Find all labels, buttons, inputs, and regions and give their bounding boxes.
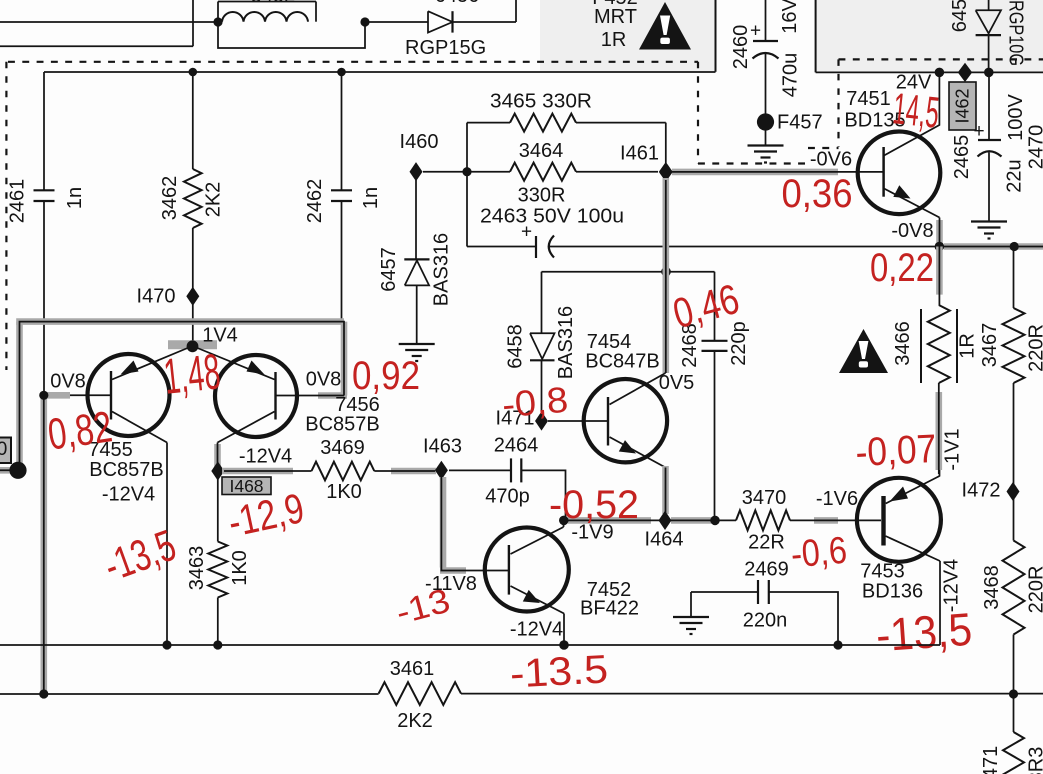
transistor Q 7453 BD136 xyxy=(857,478,941,562)
svg-text:-0V8: -0V8 xyxy=(891,220,933,242)
svg-text:5452: 5452 xyxy=(251,0,296,7)
gray -0V8 rail xyxy=(944,243,1043,250)
dashed border right vertical xyxy=(837,59,839,147)
transistor Q 7454 BC847B xyxy=(584,379,667,462)
wire -0V8 rail xyxy=(549,246,1043,248)
svg-text:I462: I462 xyxy=(953,88,973,123)
wire 3467 to I472 xyxy=(1013,383,1015,484)
junction dot loop/collector xyxy=(661,267,671,277)
module area top right (light fill) xyxy=(816,0,1043,72)
module area top (light fill) xyxy=(540,0,716,72)
svg-text:0: 0 xyxy=(0,439,7,460)
wire 7453 emitter top xyxy=(939,470,941,477)
svg-text:0V8: 0V8 xyxy=(50,371,86,393)
junction dot rail/7451 collector xyxy=(935,68,945,78)
gray 7451 emitter xyxy=(936,220,943,247)
svg-text:2K2: 2K2 xyxy=(203,182,225,218)
junction dot rail/3462 xyxy=(189,68,198,77)
gray bus I461 to 7451 xyxy=(672,169,838,176)
gray 3469 right xyxy=(391,468,436,475)
svg-text:330R: 330R xyxy=(518,185,566,207)
wire rail -13V5 upper xyxy=(0,644,940,646)
svg-text:14,5: 14,5 xyxy=(891,84,942,138)
transistor Q 7451 BD135 xyxy=(858,132,941,215)
svg-text:BAS316: BAS316 xyxy=(431,233,453,306)
junction dot loop left xyxy=(462,167,471,176)
node I463 diamond xyxy=(435,461,448,480)
wire 3466 bottom xyxy=(938,383,940,474)
resistor 3471 (cut) xyxy=(1003,732,1024,774)
junction dot right of bypass xyxy=(360,17,369,26)
wire I472 to 3468 xyxy=(1013,499,1015,541)
ground 6457 xyxy=(399,343,435,345)
wire 7455 collector xyxy=(166,443,168,646)
wire 3464 to I461 xyxy=(576,171,658,173)
wire I471 to base xyxy=(548,420,608,422)
svg-text:F457: F457 xyxy=(777,112,823,134)
junction dot rail/6455 xyxy=(984,68,994,78)
svg-text:3R3: 3R3 xyxy=(1026,747,1043,774)
gray 3466 top xyxy=(936,247,943,295)
svg-text:I472: I472 xyxy=(962,480,1001,502)
wire 2460 bottom xyxy=(765,54,767,123)
svg-text:2469: 2469 xyxy=(744,559,789,581)
capacitor 2469 xyxy=(757,580,759,604)
svg-text:-0V6: -0V6 xyxy=(810,149,852,171)
gray stub 0V8 left xyxy=(45,392,70,399)
wire 3470 to 7453 xyxy=(790,519,881,521)
svg-text:0,22: 0,22 xyxy=(870,246,934,290)
svg-text:22R: 22R xyxy=(748,532,785,554)
svg-text:BF422: BF422 xyxy=(580,598,639,620)
module box right left edge xyxy=(815,0,817,72)
wire inductor bypass xyxy=(218,22,365,48)
junction dot left of inductor xyxy=(213,17,222,26)
bus stub 7456 base gray xyxy=(318,392,347,399)
capacitor 2464 xyxy=(510,458,512,482)
dashed border top right xyxy=(839,58,1043,60)
ground 2465 xyxy=(971,220,1007,222)
gray stub 7456 collector xyxy=(214,444,221,471)
wire I463 to 2464 xyxy=(449,469,511,471)
bus wire black over xyxy=(0,322,344,471)
svg-text:+: + xyxy=(973,121,984,142)
resistor 3466 1R xyxy=(928,305,950,383)
wire 3468 down xyxy=(1013,635,1015,733)
wire top horizontal upper xyxy=(0,21,218,23)
svg-text:3471: 3471 xyxy=(980,746,1002,774)
svg-text:1R: 1R xyxy=(957,333,979,359)
svg-text:0,82: 0,82 xyxy=(45,402,115,459)
wire 2460 top xyxy=(765,0,767,41)
svg-text:2465: 2465 xyxy=(951,135,973,180)
svg-text:2464: 2464 xyxy=(494,435,539,457)
wire I468 down xyxy=(217,478,219,542)
junction dot 3468/bottom rail xyxy=(1009,689,1018,698)
capacitor 2465 xyxy=(978,139,1001,141)
wire I470 to 1V4 xyxy=(192,303,194,346)
svg-text:0V5: 0V5 xyxy=(659,372,695,394)
svg-text:2470: 2470 xyxy=(1026,125,1043,170)
svg-text:3464: 3464 xyxy=(519,140,564,162)
wire 3469 left xyxy=(224,470,312,472)
bus horizontal gray xyxy=(16,318,344,325)
wire rail bottom right xyxy=(461,693,1043,695)
diode 6456 RGP15G xyxy=(428,11,453,32)
svg-text:+: + xyxy=(750,21,761,42)
node I471 diamond xyxy=(535,411,548,430)
capacitor 2461 xyxy=(34,189,55,191)
wire 7453 collector xyxy=(939,561,941,645)
wire 24V rail right xyxy=(816,71,1043,73)
svg-text:+: + xyxy=(521,222,532,243)
node I462 label box xyxy=(949,82,976,130)
svg-text:-0,6: -0,6 xyxy=(789,530,848,577)
capacitor 2462 xyxy=(331,189,352,191)
junction dot 7452 emi/rail xyxy=(559,640,569,650)
wire 2461 branch xyxy=(43,72,45,190)
diode 6455 xyxy=(976,10,1001,33)
inductor 5452 shield box xyxy=(218,1,316,3)
resistor 3465 xyxy=(510,114,576,132)
wire loop left xyxy=(466,123,468,247)
node I464 diamond xyxy=(659,511,672,530)
capacitor 2468 xyxy=(702,340,728,342)
wire diode feed xyxy=(365,21,428,23)
wire 3463 down xyxy=(217,598,219,646)
junction dot 7455 base xyxy=(39,391,48,400)
wire 2465 top xyxy=(988,72,990,140)
junction dot rail bottom left xyxy=(39,689,48,698)
resistor 3467 xyxy=(1003,308,1025,383)
svg-text:3468: 3468 xyxy=(981,565,1003,610)
wire I463 to 7452 base xyxy=(441,477,509,571)
svg-text:220n: 220n xyxy=(743,610,788,632)
resistor 3469 xyxy=(312,462,375,481)
junction dot bus/2468 xyxy=(710,516,720,526)
svg-text:-12V4: -12V4 xyxy=(102,484,155,506)
svg-text:3465 330R: 3465 330R xyxy=(490,91,592,113)
resistor 3463 xyxy=(208,542,227,598)
resistor 3461 xyxy=(379,682,461,705)
svg-text:7451: 7451 xyxy=(846,88,891,110)
svg-text:0,36: 0,36 xyxy=(782,172,853,216)
wire 7456 base xyxy=(276,395,345,397)
svg-text:470u: 470u xyxy=(780,53,802,98)
module box F452 right edge xyxy=(715,0,717,72)
svg-text:1,48: 1,48 xyxy=(161,343,223,405)
wire I461 down to 7454 xyxy=(665,180,667,373)
node I462 diamond xyxy=(958,63,972,82)
wire 6455 bottom xyxy=(988,35,990,72)
warning triangle mid xyxy=(839,329,888,373)
diode 6458 BAS316 xyxy=(530,333,555,359)
resistor 3462 xyxy=(184,169,202,228)
capacitor 2463 xyxy=(535,236,537,258)
svg-text:MRT: MRT xyxy=(594,6,637,28)
wire 2464 to bus xyxy=(521,470,565,517)
svg-text:2461: 2461 xyxy=(7,179,29,224)
wire diode to top edge xyxy=(453,21,517,23)
gray 3466 bottom xyxy=(935,392,942,470)
junction dot 1V4 xyxy=(187,340,199,352)
wire 7454 emitter xyxy=(665,468,667,514)
svg-text:220R: 220R xyxy=(1026,566,1043,614)
svg-text:I464: I464 xyxy=(645,529,684,551)
svg-text:BC857B: BC857B xyxy=(89,459,164,481)
junction dot 7455 col/rail xyxy=(162,640,171,649)
capacitor 2468 branch xyxy=(714,272,716,341)
bus 0V8 left exit gray xyxy=(0,467,20,474)
dashed border mid horizontal xyxy=(698,162,808,164)
wire 3469 right xyxy=(374,470,435,472)
resistor 3470 xyxy=(736,510,790,530)
capacitor 2460 xyxy=(753,40,778,42)
wire collector loop top xyxy=(542,271,715,273)
svg-text:3467: 3467 xyxy=(979,323,1001,368)
wire I461 riser xyxy=(665,123,667,163)
wire 2463 left xyxy=(467,246,536,248)
svg-text:I470: I470 xyxy=(137,286,176,308)
svg-text:1K0: 1K0 xyxy=(229,550,251,586)
wire base column down xyxy=(43,395,45,694)
svg-text:2460: 2460 xyxy=(730,25,752,70)
wire 7452 emitter xyxy=(563,614,565,646)
junction dot 2469/rail xyxy=(833,640,842,649)
node I468 diamond xyxy=(211,461,224,480)
resistor 3464 xyxy=(510,163,576,181)
svg-text:BD136: BD136 xyxy=(862,581,923,603)
gray bus I464 right xyxy=(671,517,711,524)
svg-text:I461: I461 xyxy=(620,143,659,165)
svg-text:-12V4: -12V4 xyxy=(239,446,292,468)
wire loop top right xyxy=(576,122,666,124)
svg-text:3462: 3462 xyxy=(159,176,181,221)
wire 2469 left xyxy=(691,591,758,593)
wire rail bottom left xyxy=(0,693,379,695)
svg-text:3469: 3469 xyxy=(320,437,365,459)
junction dot -0V8/3467 xyxy=(1010,242,1019,251)
svg-text:2463 50V 100u: 2463 50V 100u xyxy=(480,206,624,228)
svg-text:16V: 16V xyxy=(779,0,801,34)
svg-text:-0,07: -0,07 xyxy=(854,427,937,475)
wire bus I464 xyxy=(564,519,736,521)
wire 7455 base xyxy=(44,394,111,396)
wire 6457 down xyxy=(416,285,418,344)
junction dot emitter/-0V8 xyxy=(935,242,945,252)
svg-text:2462: 2462 xyxy=(304,179,326,224)
svg-text:-0,8: -0,8 xyxy=(500,379,569,426)
svg-text:RGP10G: RGP10G xyxy=(1005,0,1027,66)
svg-text:3461: 3461 xyxy=(390,658,435,680)
wire 7456 collector xyxy=(217,443,219,465)
wire 7452 collector xyxy=(563,520,565,527)
svg-text:3470: 3470 xyxy=(742,487,787,509)
wire 24V rail left xyxy=(44,71,716,73)
wire 3462 branch top xyxy=(192,72,194,169)
wire I460 row xyxy=(423,171,510,173)
svg-text:-12V4: -12V4 xyxy=(510,619,563,641)
gray bus I464 left xyxy=(568,517,651,524)
svg-text:1V4: 1V4 xyxy=(202,325,238,347)
gray 7454 emitter xyxy=(662,466,669,514)
svg-text:6456: 6456 xyxy=(435,0,480,7)
gray bus I461 down xyxy=(662,178,669,373)
bus right corner gray xyxy=(341,322,348,396)
svg-text:RGP15G: RGP15G xyxy=(405,37,486,59)
wire top horizontal lower xyxy=(0,45,193,47)
node I468 label box xyxy=(222,477,271,495)
transistor Q 7455 BC857B xyxy=(88,354,170,436)
junction dot 3463/rail xyxy=(213,640,222,649)
svg-text:1R: 1R xyxy=(601,29,627,51)
svg-text:1n: 1n xyxy=(360,187,382,209)
wire I461 to 7451 base xyxy=(672,171,884,173)
svg-text:3463: 3463 xyxy=(186,546,208,591)
node I461 diamond xyxy=(659,162,673,182)
svg-text:BC847B: BC847B xyxy=(585,351,660,373)
svg-text:6457: 6457 xyxy=(378,247,400,292)
wire 7451 emitter xyxy=(939,218,941,247)
svg-text:3466: 3466 xyxy=(892,321,914,366)
wire 3467 top xyxy=(1013,247,1015,309)
wire loop top xyxy=(467,122,510,124)
svg-text:I460: I460 xyxy=(400,131,439,153)
junction dot bus/2464 xyxy=(559,516,569,526)
wire 3462 to I470 xyxy=(192,228,194,289)
gray 3470 stub xyxy=(814,517,838,524)
diode 6457 BAS316 xyxy=(404,258,429,260)
svg-text:I463: I463 xyxy=(423,436,462,458)
gray stub node 1V4 xyxy=(168,340,217,349)
wire 7451 collector xyxy=(884,72,939,155)
node I472 diamond xyxy=(1007,482,1020,501)
gray I463 down xyxy=(440,477,447,568)
svg-text:BAS316: BAS316 xyxy=(555,306,577,379)
svg-text:470p: 470p xyxy=(485,486,530,508)
svg-text:22u: 22u xyxy=(1004,159,1026,192)
dashed border step down xyxy=(697,62,699,164)
node I470 diamond xyxy=(186,287,199,306)
ground F457 xyxy=(765,130,767,146)
wire 2465 bottom xyxy=(988,153,990,222)
svg-text:220p: 220p xyxy=(728,321,750,366)
svg-text:1K0: 1K0 xyxy=(326,481,362,503)
node exit label box xyxy=(0,438,11,464)
svg-text:-13.5: -13.5 xyxy=(509,647,609,696)
svg-text:2K2: 2K2 xyxy=(397,710,433,732)
transistor Q 7452 BF422 xyxy=(485,528,569,612)
svg-text:BC857B: BC857B xyxy=(305,414,380,436)
gray 3469 left xyxy=(222,468,293,475)
svg-text:-13,5: -13,5 xyxy=(874,603,973,662)
wire 3466 top xyxy=(938,247,940,306)
ground 2469 xyxy=(690,592,692,617)
dashed border left xyxy=(5,62,7,370)
junction big dot left exit xyxy=(9,462,26,479)
wire 6458 branch xyxy=(541,272,543,334)
svg-text:6456: 6456 xyxy=(949,0,971,32)
node I460 diamond xyxy=(410,162,423,181)
svg-text:100V: 100V xyxy=(1005,93,1027,140)
svg-text:-1V1: -1V1 xyxy=(942,428,964,470)
svg-text:1n: 1n xyxy=(64,187,86,209)
svg-text:-1V6: -1V6 xyxy=(816,488,858,510)
dashed border right stub xyxy=(808,147,839,149)
svg-text:0V8: 0V8 xyxy=(306,369,342,391)
node F457 big dot xyxy=(757,113,774,130)
wire 2462 branch xyxy=(341,72,343,190)
wire 6455 top xyxy=(988,0,990,10)
junction dot rail/2462 xyxy=(337,68,346,77)
wire I460 down xyxy=(415,180,417,259)
dashed border top xyxy=(8,61,698,63)
svg-text:6458: 6458 xyxy=(505,324,527,369)
resistor 3468 xyxy=(1003,541,1025,635)
inductor 5452 xyxy=(222,12,308,22)
warning triangle top xyxy=(639,2,691,50)
wire 2469 right xyxy=(769,592,838,645)
transistor Q 7456 BC857B xyxy=(215,355,297,437)
svg-text:220R: 220R xyxy=(1026,324,1043,372)
svg-text:0,92: 0,92 xyxy=(352,354,420,398)
